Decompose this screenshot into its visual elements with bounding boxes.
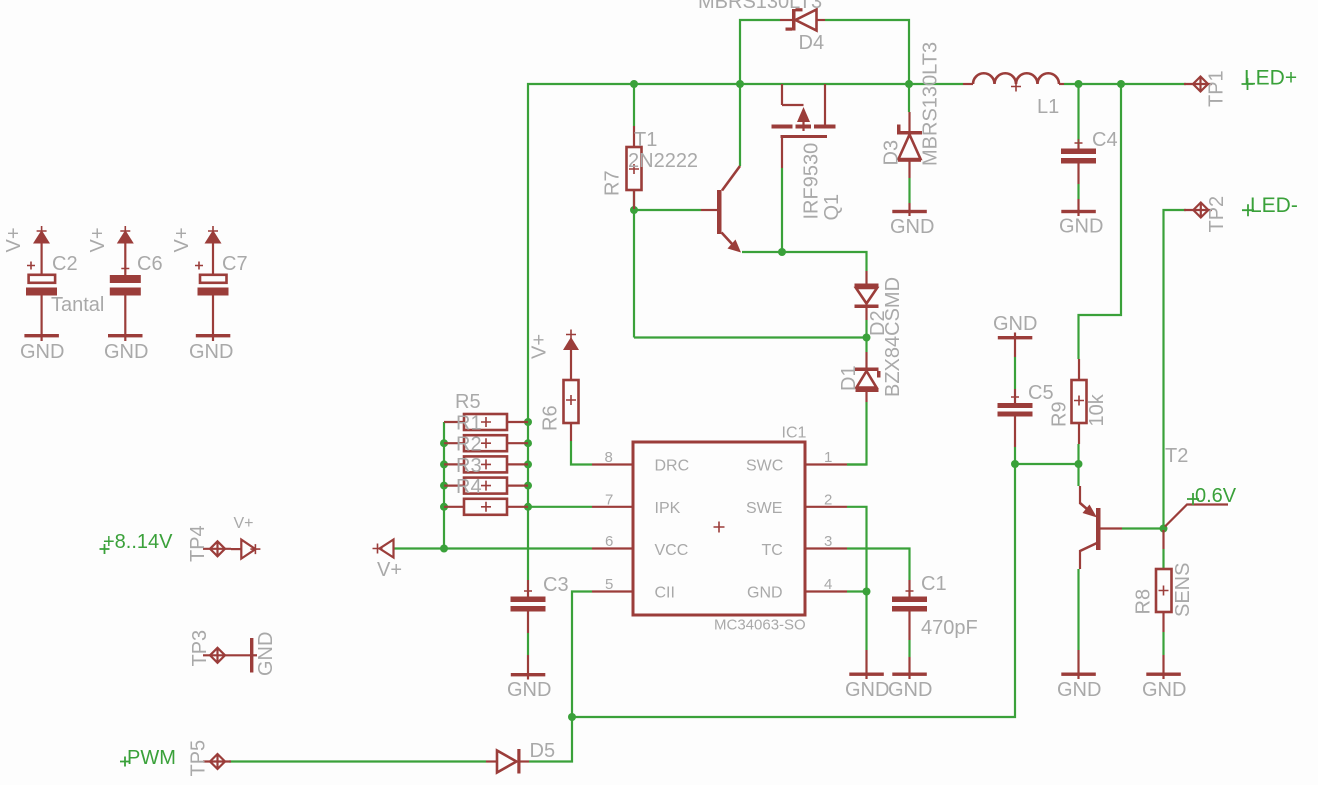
node dot T2 base junction <box>1160 525 1168 533</box>
svg-text:TP2: TP2 <box>1206 196 1228 233</box>
resistor R7 <box>627 126 642 209</box>
test point TP5 <box>203 754 231 769</box>
svg-text:C1: C1 <box>921 573 947 595</box>
svg-text:470pF: 470pF <box>921 617 978 639</box>
capacitor C4 <box>1061 139 1096 209</box>
wire D4 loop right <box>825 20 909 84</box>
svg-text:IPK: IPK <box>655 500 681 517</box>
wire Q1 gate down <box>781 168 783 252</box>
transistor T2 <box>1080 486 1122 569</box>
svg-text:GND: GND <box>1059 216 1103 238</box>
ground under C4 <box>1061 209 1096 216</box>
wire D3 top <box>908 84 910 112</box>
supply symbol V+ right of TP4 <box>231 540 260 559</box>
svg-text:V+: V+ <box>377 559 402 581</box>
svg-text:C5: C5 <box>1028 382 1054 404</box>
svg-text:3: 3 <box>824 533 832 550</box>
svg-text:8: 8 <box>605 449 613 466</box>
cross +8..14V <box>100 544 110 554</box>
wire R7 top <box>633 84 635 126</box>
capacitor C1 <box>892 580 927 672</box>
resistor R8 SENS <box>1156 530 1172 672</box>
ground under C7 <box>196 334 231 341</box>
svg-text:R3: R3 <box>456 455 482 477</box>
svg-text:CII: CII <box>655 585 675 602</box>
capacitor C6 <box>110 265 141 335</box>
svg-text:V+: V+ <box>234 515 254 532</box>
cross LED- <box>1242 204 1254 216</box>
svg-text:C7: C7 <box>222 253 248 275</box>
label leader 0.6V <box>1165 505 1228 527</box>
wire T2 collector to GND <box>1077 569 1079 650</box>
node dot ladder left R3 <box>440 460 448 468</box>
diode D4 MBRS130LT3 <box>780 8 825 31</box>
diode D5 <box>486 749 529 774</box>
test point TP1 <box>1184 77 1212 92</box>
node dot ladder right R2 <box>524 439 532 447</box>
supply symbol V+ above R6 <box>563 330 579 381</box>
node dot ladder right R1 <box>524 418 532 426</box>
node dot ladder left R4 <box>440 482 448 490</box>
diode D1 BZX84CSMD (zener) <box>855 352 881 402</box>
wire junction row C5 to R9 <box>1015 463 1079 465</box>
svg-text:D1: D1 <box>838 365 860 391</box>
svg-text:V+: V+ <box>87 227 109 252</box>
wire T1 emitter row to D2 top <box>742 252 867 271</box>
IC1 MC34063-SO box <box>592 442 847 615</box>
node dot D2-D1 <box>863 334 871 342</box>
node dot ladder right R5 <box>524 503 532 511</box>
wire C4 top <box>1077 84 1079 145</box>
wire pin 7 row <box>528 506 592 508</box>
supply symbol V+ above C7 <box>205 226 222 275</box>
node dot rail-C4 <box>1075 80 1083 88</box>
cross 0.6V <box>1187 493 1199 505</box>
svg-text:GND: GND <box>1142 679 1186 701</box>
ground under D3 <box>892 209 927 216</box>
wire IC pin 1 to D1 <box>847 463 867 465</box>
svg-text:V+: V+ <box>3 227 25 252</box>
ground under C3 <box>511 672 546 680</box>
wire C1 bottom <box>908 640 910 657</box>
svg-text:GND: GND <box>747 585 783 602</box>
svg-text:GND: GND <box>888 679 932 701</box>
svg-text:DRC: DRC <box>655 458 690 475</box>
resistor R2 <box>464 435 507 451</box>
resistor R4 <box>464 478 507 494</box>
node dot IC pin4 GND vertical <box>863 588 871 596</box>
svg-text:MBRS130LT3: MBRS130LT3 <box>698 0 822 13</box>
svg-text:PWM: PWM <box>127 747 176 769</box>
node dot VCC junction <box>440 545 448 553</box>
ground under IC pin4 wire <box>849 650 884 679</box>
wire R8 top <box>1162 549 1164 569</box>
resistor R9 <box>1072 359 1087 444</box>
wire T1 base <box>634 209 701 211</box>
svg-text:LED-: LED- <box>1250 194 1298 217</box>
diode D2 BZX84CSMD <box>855 271 879 320</box>
wire TP2 to LED- vertical <box>1164 210 1187 529</box>
svg-text:5: 5 <box>605 576 613 593</box>
diode D3 MBRS130LT3 (zener to GND) <box>897 112 922 209</box>
svg-text:VCC: VCC <box>655 542 689 559</box>
resistor R1 <box>464 414 507 430</box>
wire C5 GND stem <box>1014 357 1016 389</box>
wire top rail left segment V+ net <box>528 84 963 580</box>
resistor R6 <box>564 380 579 441</box>
svg-text:GND: GND <box>20 341 64 363</box>
wire R6 bottom to pin 8 <box>571 441 592 465</box>
svg-text:2: 2 <box>824 491 832 508</box>
svg-text:C6: C6 <box>137 253 163 275</box>
resistor ladder leads R1-R5 <box>444 422 528 507</box>
svg-text:GND: GND <box>507 679 551 701</box>
wire D1 bottom to IC pin 1 <box>847 402 867 465</box>
svg-text:SWE: SWE <box>746 500 782 517</box>
supply symbol V+ above C6 <box>117 226 134 275</box>
node dot rail-D3 <box>905 80 913 88</box>
svg-text:TP3: TP3 <box>189 630 211 667</box>
svg-text:C3: C3 <box>543 574 569 596</box>
svg-text:10k: 10k <box>1086 393 1108 426</box>
svg-text:GND: GND <box>189 341 233 363</box>
svg-text:TP5: TP5 <box>188 740 210 777</box>
node dot ladder right R4 <box>524 482 532 490</box>
capacitor C2 <box>26 262 57 335</box>
wire bottom long net CII <box>572 464 1015 717</box>
svg-text:R5: R5 <box>455 391 481 413</box>
svg-text:GND: GND <box>1057 679 1101 701</box>
svg-text:GND: GND <box>993 313 1037 335</box>
svg-text:LED+: LED+ <box>1244 67 1297 90</box>
svg-text:Q1: Q1 <box>821 194 843 221</box>
svg-text:BZX84CSMD: BZX84CSMD <box>882 277 904 397</box>
ground above C5 <box>998 333 1033 358</box>
svg-text:IRF9530: IRF9530 <box>801 143 823 220</box>
svg-text:T1: T1 <box>634 129 657 151</box>
wire IC pin 2 down to pin 4 and GND <box>847 507 867 650</box>
svg-text:TC: TC <box>762 542 783 559</box>
wire node to D1 top <box>865 338 867 353</box>
node dot rail-T1 collector <box>736 80 744 88</box>
resistor R5 <box>464 499 507 515</box>
node dot CII riser junction <box>568 713 576 721</box>
svg-text:GND: GND <box>255 632 277 676</box>
transistor T1 2N2222 <box>701 166 741 253</box>
svg-text:V+: V+ <box>529 334 551 359</box>
wire R9 bottom to junction <box>1077 444 1079 464</box>
cross PWM <box>120 757 130 767</box>
capacitor C3 <box>511 580 546 672</box>
node dot R9 bottom junction <box>1075 460 1083 468</box>
wire IC pin 4 <box>847 590 867 592</box>
ground under T2 <box>1061 650 1096 679</box>
svg-text:R7: R7 <box>602 170 624 196</box>
wire top rail right segment after L1 to TP1 <box>1064 83 1186 85</box>
supply symbol V+ above C2 <box>33 226 50 275</box>
test point TP3 <box>203 648 231 663</box>
wire resistor ladder left vertical <box>443 422 445 549</box>
test point TP2 <box>1184 203 1212 218</box>
wire VCC row from V+ arrow to pin 6 <box>393 547 592 549</box>
svg-text:6: 6 <box>605 533 613 550</box>
wire T2 base to node <box>1122 527 1164 529</box>
svg-text:TP4: TP4 <box>187 525 209 562</box>
svg-text:R8: R8 <box>1133 589 1155 615</box>
svg-text:2N2222: 2N2222 <box>628 150 698 172</box>
wire R7 bottom to node <box>633 190 635 338</box>
ground under C2 <box>24 334 59 341</box>
svg-text:R9: R9 <box>1049 401 1071 427</box>
wire D5 to CII riser <box>529 592 592 762</box>
svg-text:L1: L1 <box>1037 96 1059 118</box>
svg-text:4: 4 <box>824 576 832 593</box>
capacitor C5 <box>998 389 1033 447</box>
ground under C1 <box>892 672 927 679</box>
wire IC pin 3 to C1 <box>847 549 910 581</box>
node dot ladder left R5 <box>440 503 448 511</box>
wire C4 bottom to GND <box>1077 184 1079 199</box>
node dot rail-R7 <box>630 80 638 88</box>
node dot C5 junction <box>1011 460 1019 468</box>
svg-text:0.6V: 0.6V <box>1195 485 1237 507</box>
ground under C6 <box>108 334 143 341</box>
svg-text:D5: D5 <box>530 740 556 762</box>
wire LED+ junction to R9 path <box>1079 84 1122 359</box>
svg-text:MBRS130LT3: MBRS130LT3 <box>920 42 942 166</box>
svg-text:R2: R2 <box>456 434 482 456</box>
wire C5 bottom to junction <box>1014 447 1016 464</box>
svg-text:Tantal: Tantal <box>51 294 104 316</box>
wire PWM from TP5 to D5 <box>229 760 486 762</box>
svg-text:D4: D4 <box>799 32 825 54</box>
wire node row to D2 anode <box>634 336 867 338</box>
wire T2 emitter top <box>1077 464 1079 486</box>
svg-text:+8..14V: +8..14V <box>103 531 173 553</box>
svg-text:SENS: SENS <box>1172 563 1194 617</box>
svg-text:IC1: IC1 <box>782 425 807 442</box>
node dot Q1 gate / T1 emitter <box>778 248 786 256</box>
node dot R7 bottom / T1 base <box>630 206 638 214</box>
svg-text:1: 1 <box>824 449 832 466</box>
svg-text:R1: R1 <box>456 413 482 435</box>
svg-text:C4: C4 <box>1092 129 1118 151</box>
wire T1 collector <box>739 84 741 166</box>
resistor R3 <box>464 456 507 472</box>
svg-text:GND: GND <box>845 679 889 701</box>
svg-text:TP1: TP1 <box>1206 70 1228 107</box>
wire D2 bottom to node <box>865 320 867 338</box>
test point TP4 <box>203 541 231 556</box>
svg-text:SWC: SWC <box>746 458 783 475</box>
svg-text:V+: V+ <box>171 227 193 252</box>
inductor L1 <box>963 73 1064 91</box>
wire D4 loop left <box>740 20 780 84</box>
node dot rail-LED wire <box>1117 80 1125 88</box>
svg-text:R4: R4 <box>456 476 482 498</box>
svg-text:MC34063-SO: MC34063-SO <box>714 617 806 634</box>
ground right of TP3 <box>231 638 257 673</box>
wire D3 bottom to GND <box>908 178 910 203</box>
capacitor C7 <box>195 262 229 335</box>
mosfet Q1 IRF9530 <box>772 84 836 168</box>
svg-text:C2: C2 <box>52 253 78 275</box>
node dot ladder right R3 <box>524 460 532 468</box>
svg-text:R6: R6 <box>540 405 562 431</box>
svg-text:GND: GND <box>890 216 934 238</box>
svg-text:D3: D3 <box>881 140 903 166</box>
cross LED+ <box>1242 78 1254 90</box>
supply symbol V+ left of VCC wire <box>373 540 394 558</box>
wire R8 bottom <box>1162 632 1164 655</box>
node dot ladder left R2 <box>440 439 448 447</box>
svg-text:T2: T2 <box>1165 445 1188 467</box>
ground under R8 <box>1146 672 1181 679</box>
svg-text:7: 7 <box>605 491 613 508</box>
svg-text:GND: GND <box>104 341 148 363</box>
